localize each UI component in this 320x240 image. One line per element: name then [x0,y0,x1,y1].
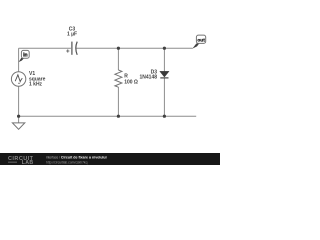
svg-text:out: out [197,38,205,44]
wire diode branch bottom lead [163,78,165,116]
wire left vertical from top net down to V1 [18,48,20,72]
node junction top diode [163,47,166,50]
wire bottom net [19,115,197,117]
net flag in [19,50,30,62]
capacitor C3 (polarized) [66,42,77,55]
wire from V1 bottom to ground junction [18,86,20,123]
wire top net: left segment from node A to C3 [19,47,71,49]
svg-text:in: in [23,53,27,59]
svg-text:LAB: LAB [22,160,34,165]
wire resistor branch top lead [117,48,119,70]
node junction bottom diode [163,115,166,118]
wire top net: segment from C3 to out corner [76,47,192,49]
wire diode branch top lead [163,48,165,71]
node junction bottom ground [17,115,20,118]
svg-text:1N4148: 1N4148 [139,75,157,81]
resistor R [115,70,122,87]
svg-text:1 µF: 1 µF [67,32,77,38]
watermark bar [0,153,220,166]
svg-text:interface / Circuit de fixare: interface / Circuit de fixare a nivelulu… [46,156,107,160]
net flag out [192,35,205,49]
wire resistor branch bottom lead [117,87,119,116]
ground [12,123,24,129]
svg-text:100 Ω: 100 Ω [124,79,138,85]
node junction bottom resistor [117,115,120,118]
voltage source V1 (square wave function generator) [11,72,25,86]
node junction top resistor [117,47,120,50]
diode D3 [160,71,169,78]
svg-text:1 kHz: 1 kHz [29,82,43,88]
svg-text:http://circuitlab.com/cskh7kq: http://circuitlab.com/cskh7kq [46,160,88,164]
